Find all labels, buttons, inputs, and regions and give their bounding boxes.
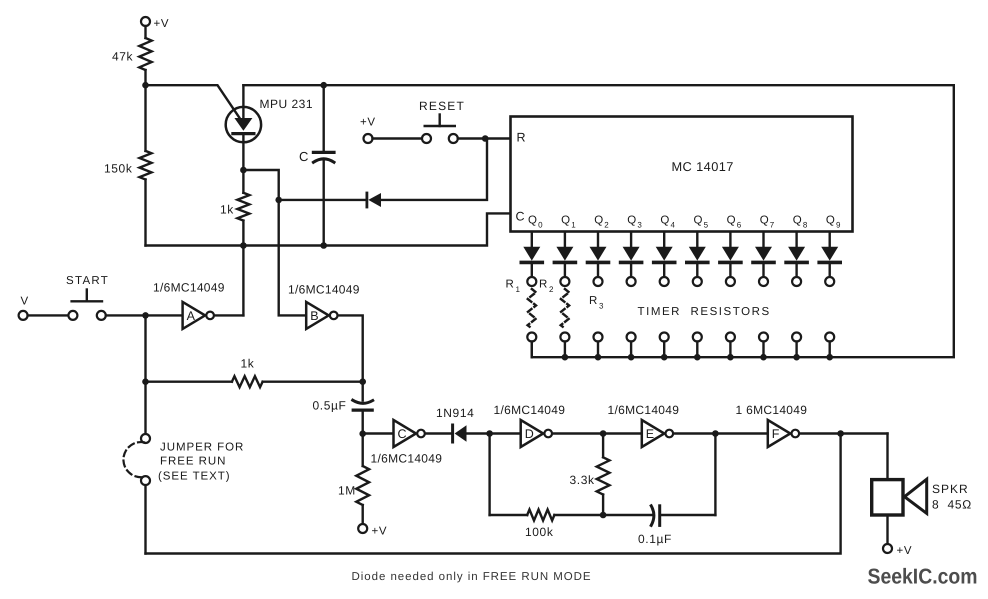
- svg-text:1/6MC14049: 1/6MC14049: [494, 403, 566, 417]
- svg-text:Q: Q: [627, 215, 636, 227]
- svg-text:Q: Q: [694, 215, 703, 227]
- svg-text:8: 8: [803, 221, 808, 230]
- svg-text:TIMER RESISTORS: TIMER RESISTORS: [638, 306, 771, 318]
- svg-text:Q: Q: [528, 215, 537, 227]
- svg-text:0.5µF: 0.5µF: [313, 399, 347, 413]
- svg-text:+V: +V: [372, 526, 388, 538]
- svg-text:7: 7: [770, 221, 775, 230]
- svg-text:Diode needed only in FREE RUN: Diode needed only in FREE RUN MODE: [352, 571, 592, 583]
- svg-text:1/6MC14049: 1/6MC14049: [153, 281, 225, 295]
- svg-text:Q: Q: [594, 215, 603, 227]
- svg-text:1k: 1k: [241, 357, 255, 371]
- svg-text:START: START: [66, 275, 109, 287]
- svg-text:1M: 1M: [338, 484, 356, 498]
- svg-text:R: R: [539, 279, 547, 291]
- svg-text:4: 4: [671, 221, 676, 230]
- svg-text:F: F: [772, 427, 780, 441]
- svg-text:Q: Q: [793, 215, 802, 227]
- svg-text:SPKR: SPKR: [932, 482, 969, 496]
- svg-text:1k: 1k: [220, 203, 234, 217]
- svg-text:FREE RUN: FREE RUN: [160, 456, 226, 468]
- svg-text:R: R: [589, 295, 597, 307]
- svg-text:MC 14017: MC 14017: [672, 159, 734, 174]
- svg-text:V: V: [21, 296, 29, 308]
- svg-text:+V: +V: [897, 545, 913, 557]
- svg-text:Q: Q: [727, 215, 736, 227]
- svg-text:6: 6: [737, 221, 742, 230]
- svg-text:0: 0: [538, 221, 543, 230]
- svg-text:1/6MC14049: 1/6MC14049: [288, 283, 360, 297]
- svg-text:1N914: 1N914: [436, 406, 474, 420]
- svg-text:MPU 231: MPU 231: [260, 97, 314, 111]
- svg-text:1/6MC14049: 1/6MC14049: [608, 403, 680, 417]
- svg-text:Q: Q: [660, 215, 669, 227]
- svg-text:Q: Q: [561, 215, 570, 227]
- svg-text:D: D: [525, 427, 534, 441]
- svg-text:1/6MC14049: 1/6MC14049: [371, 452, 443, 466]
- svg-text:Q: Q: [826, 215, 835, 227]
- svg-text:C: C: [398, 427, 407, 441]
- svg-text:5: 5: [704, 221, 709, 230]
- svg-text:150k: 150k: [104, 162, 133, 176]
- svg-text:+V: +V: [360, 117, 376, 129]
- svg-text:A: A: [187, 309, 196, 323]
- svg-text:JUMPER FOR: JUMPER FOR: [160, 442, 244, 454]
- svg-text:+V: +V: [154, 18, 170, 30]
- svg-text:9: 9: [836, 221, 841, 230]
- svg-text:2: 2: [549, 285, 554, 294]
- svg-text:3.3k: 3.3k: [570, 473, 595, 487]
- svg-text:2: 2: [604, 221, 609, 230]
- svg-text:100k: 100k: [525, 525, 554, 539]
- svg-text:1 6MC14049: 1 6MC14049: [736, 403, 808, 417]
- svg-text:3: 3: [599, 302, 604, 311]
- svg-text:C: C: [516, 210, 526, 224]
- svg-text:8 45Ω: 8 45Ω: [932, 498, 972, 512]
- svg-text:R: R: [506, 279, 514, 291]
- svg-text:1: 1: [516, 285, 521, 294]
- svg-text:C: C: [299, 149, 309, 164]
- svg-text:3: 3: [637, 221, 642, 230]
- svg-text:47k: 47k: [112, 50, 134, 64]
- svg-text:(SEE TEXT): (SEE TEXT): [158, 471, 231, 483]
- svg-text:E: E: [646, 427, 654, 441]
- svg-text:RESET: RESET: [419, 99, 465, 113]
- svg-text:B: B: [310, 309, 318, 323]
- svg-text:Q: Q: [760, 215, 769, 227]
- svg-text:0.1µF: 0.1µF: [638, 532, 672, 546]
- svg-text:1: 1: [571, 221, 576, 230]
- svg-text:R: R: [517, 131, 527, 145]
- svg-text:SeekIC.com: SeekIC.com: [868, 565, 978, 589]
